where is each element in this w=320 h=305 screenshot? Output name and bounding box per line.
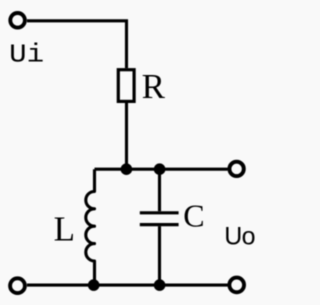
svg-text:C: C — [183, 198, 204, 234]
svg-text:Uo: Uo — [224, 223, 255, 251]
resistor R — [118, 70, 134, 102]
svg-text:R: R — [142, 67, 166, 106]
capacitor C — [140, 169, 179, 285]
node J3: inductor bottom junction — [88, 279, 100, 291]
node J2: capacitor top junction — [154, 163, 166, 175]
wire: input top wire from Ui terminal to resistor — [27, 21, 127, 68]
terminal: bottom-left input — [10, 278, 25, 293]
terminal: top-right output — [229, 162, 243, 176]
terminal: top-left input — [10, 13, 25, 28]
node J1: resistor to rail junction — [121, 163, 133, 175]
node J4: capacitor bottom junction — [154, 279, 166, 291]
terminal: bottom-right output — [229, 278, 244, 293]
wire: resistor bottom to middle node — [125, 103, 128, 169]
svg-text:L: L — [54, 210, 75, 249]
wire: middle horizontal rail to output terminal — [95, 168, 228, 171]
svg-text:Ui: Ui — [9, 40, 44, 70]
wire: bottom rail — [27, 284, 228, 287]
inductor L — [86, 169, 95, 285]
